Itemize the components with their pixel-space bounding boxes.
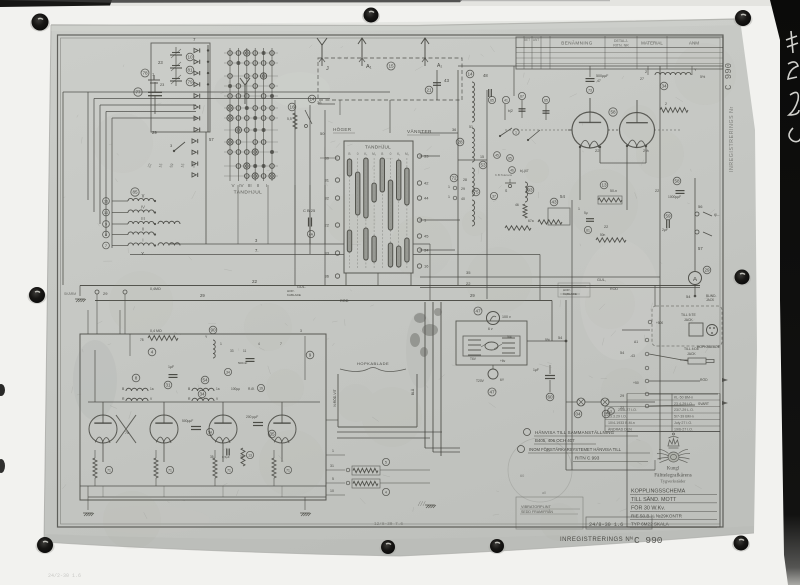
svg-text:35: 35: [240, 455, 244, 459]
svg-text:51: 51: [469, 125, 473, 129]
svg-text:4: 4: [151, 350, 154, 355]
svg-text:37: 37: [492, 195, 496, 199]
svg-text:34: 34: [661, 84, 667, 89]
svg-text:B405, 406 OCH 407: B405, 406 OCH 407: [535, 438, 575, 443]
svg-text:32: 32: [325, 196, 330, 201]
svg-text:i: i: [143, 194, 144, 199]
svg-text:1: 1: [220, 342, 222, 346]
svg-text:a0: a0: [542, 491, 546, 495]
svg-text:23: 23: [160, 83, 164, 87]
svg-text:9: 9: [105, 223, 107, 227]
svg-text:29: 29: [704, 268, 710, 273]
svg-text:KABLADE: KABLADE: [287, 293, 301, 297]
svg-text:33: 33: [230, 349, 234, 353]
svg-text:tβ↔: tβ↔: [714, 213, 720, 217]
svg-text:43: 43: [444, 78, 450, 83]
svg-text:INOM FÖRSTÄRKARSYSTEMET HÄNVI: INOM FÖRSTÄRKARSYSTEMET HÄNVISA TILL: [529, 447, 622, 452]
svg-text:0,5μF: 0,5μF: [222, 455, 230, 459]
svg-text:93: 93: [527, 188, 533, 193]
svg-text:22: 22: [252, 279, 258, 284]
svg-text:5,5: 5,5: [287, 117, 292, 121]
svg-text:65: 65: [544, 99, 548, 103]
svg-text:59: 59: [665, 214, 671, 219]
svg-text:47: 47: [475, 309, 481, 314]
svg-text:500mF: 500mF: [238, 361, 248, 365]
svg-text:56: 56: [698, 204, 703, 209]
svg-text:B: B: [381, 152, 383, 156]
svg-text:11: 11: [243, 349, 247, 353]
svg-text:II: II: [142, 227, 144, 232]
svg-text:+6v: +6v: [500, 359, 506, 363]
svg-text:TYP 6M22 SKALA: TYP 6M22 SKALA: [631, 522, 670, 527]
svg-text:Fälttelegrafkårens: Fälttelegrafkårens: [654, 472, 691, 479]
svg-text:TILL SÄND. MOTT: TILL SÄND. MOTT: [631, 496, 677, 503]
svg-text:b|2: b|2: [508, 109, 513, 113]
svg-text:RITN. NR: RITN. NR: [613, 44, 629, 48]
svg-text:57: 57: [698, 246, 703, 251]
svg-text:23/7-29 L.O.: 23/7-29 L.O.: [674, 408, 694, 412]
svg-text:28: 28: [457, 140, 463, 145]
svg-text:2: 2: [665, 102, 667, 106]
svg-text:200 μμF: 200 μμF: [246, 415, 258, 419]
svg-text:90: 90: [210, 328, 216, 333]
svg-text:15.3.29 I.O.: 15.3.29 I.O.: [608, 415, 627, 419]
svg-text:1: 1: [515, 131, 517, 135]
svg-text:╱╱╱: ╱╱╱: [417, 501, 426, 506]
svg-text:16: 16: [289, 105, 295, 110]
svg-text:I: I: [266, 183, 267, 188]
svg-text:35: 35: [210, 455, 214, 459]
svg-text:85: 85: [132, 190, 138, 195]
svg-text:46: 46: [515, 203, 519, 207]
svg-text:6 v: 6 v: [488, 327, 493, 331]
svg-text:14: 14: [467, 72, 473, 77]
svg-text:Tygverkstäder: Tygverkstäder: [660, 479, 686, 484]
svg-text:46: 46: [510, 169, 514, 173]
svg-text:12/8-30 7.6: 12/8-30 7.6: [374, 522, 403, 527]
svg-text:K₁: K₁: [397, 152, 400, 156]
svg-text:65: 65: [490, 99, 494, 103]
svg-text:23: 23: [158, 60, 163, 65]
svg-text:MATERIAL: MATERIAL: [641, 41, 663, 46]
svg-text:29: 29: [152, 130, 157, 135]
svg-text:1a: 1a: [216, 387, 220, 391]
svg-text:KL-50 BM-n: KL-50 BM-n: [674, 396, 693, 400]
svg-text:54: 54: [686, 294, 691, 299]
svg-text:7α: 7α: [125, 431, 129, 435]
svg-text:73: 73: [588, 89, 592, 93]
svg-text:72: 72: [451, 176, 457, 181]
svg-text:A₂: A₂: [437, 63, 442, 69]
svg-text:5/4: 5/4: [507, 335, 512, 339]
svg-text:A₁: A₁: [366, 64, 372, 70]
svg-text:43: 43: [551, 200, 557, 205]
svg-text:8: 8: [105, 233, 107, 237]
svg-text:FÖR 30 W.Kv.: FÖR 30 W.Kv.: [631, 505, 665, 512]
svg-text:TANDHJUL: TANDHJUL: [365, 145, 391, 150]
svg-text:53: 53: [480, 163, 486, 168]
svg-text:2: 2: [645, 70, 647, 74]
svg-text:5: 5: [332, 477, 334, 481]
svg-text:1a: 1a: [150, 387, 154, 391]
svg-text:INREGISTRERINGS Nᴺ: INREGISTRERINGS Nᴺ: [560, 536, 633, 543]
svg-text:IV: IV: [141, 205, 145, 210]
svg-text:SVART: SVART: [698, 402, 709, 406]
svg-text:54: 54: [558, 336, 562, 340]
svg-text:T6V: T6V: [470, 357, 477, 361]
svg-text:BET: BET: [524, 38, 530, 42]
svg-text:C 990: C 990: [634, 535, 663, 546]
svg-text:60: 60: [547, 395, 553, 400]
svg-text:60: 60: [520, 474, 524, 478]
svg-text:1: 1: [448, 185, 450, 189]
svg-text:0: 0: [390, 152, 392, 156]
svg-text:15: 15: [388, 64, 394, 69]
svg-text:JACK: JACK: [687, 352, 696, 356]
svg-text:19/6-27 I.O.: 19/6-27 I.O.: [674, 428, 693, 432]
svg-text:58: 58: [610, 110, 616, 115]
svg-text:-43: -43: [630, 354, 635, 358]
svg-text:8: 8: [135, 376, 138, 381]
svg-text:A1: A1: [634, 340, 638, 344]
svg-text:31: 31: [330, 464, 334, 468]
svg-text:VÄNSTER: VÄNSTER: [407, 128, 432, 135]
svg-text:HÖGER: HÖGER: [333, 126, 352, 132]
svg-text:GUL.: GUL.: [297, 285, 306, 289]
svg-text:44: 44: [424, 196, 429, 201]
svg-text:54: 54: [560, 194, 565, 199]
svg-text:29: 29: [103, 291, 108, 296]
svg-text:71: 71: [107, 469, 111, 473]
svg-text:67a: 67a: [528, 219, 534, 223]
svg-text:7: 7: [105, 244, 107, 248]
svg-text:67: 67: [520, 95, 524, 99]
svg-text:BENÄMNING: BENÄMNING: [561, 40, 592, 46]
svg-text:04: 04: [575, 412, 581, 417]
svg-text:1000μμF: 1000μμF: [668, 195, 681, 199]
svg-text:III: III: [141, 216, 145, 221]
svg-text:III: III: [248, 183, 252, 188]
svg-text:TILL 5:TE: TILL 5:TE: [681, 313, 696, 317]
svg-text:71: 71: [168, 469, 172, 473]
svg-text:I: I: [142, 238, 143, 243]
svg-text:SKÄRM: SKÄRM: [64, 292, 76, 296]
svg-text:K₁: K₁: [364, 152, 367, 156]
svg-text:24/2-30 1.6: 24/2-30 1.6: [48, 573, 81, 579]
svg-text:22: 22: [595, 148, 600, 153]
svg-text:23.4-29 I.O.: 23.4-29 I.O.: [674, 402, 693, 406]
svg-text:500μμF: 500μμF: [182, 419, 193, 423]
svg-text:75: 75: [473, 190, 479, 195]
svg-text:42: 42: [424, 181, 429, 186]
svg-text:RÖD: RÖD: [340, 299, 349, 303]
svg-text:Y.: Y.: [141, 251, 145, 256]
svg-text:500μμF: 500μμF: [596, 74, 609, 78]
svg-text:RÖD: RÖD: [700, 378, 708, 382]
svg-text:58: 58: [674, 179, 680, 184]
svg-text:14: 14: [309, 97, 315, 102]
svg-text:27: 27: [640, 77, 644, 81]
svg-text:36: 36: [452, 128, 456, 132]
svg-text:4A: 4A: [309, 233, 314, 237]
svg-text:HOPKABLADE: HOPKABLADE: [357, 361, 389, 366]
svg-text:54: 54: [202, 378, 208, 383]
svg-text:40: 40: [461, 197, 465, 201]
svg-text:29: 29: [461, 187, 465, 191]
svg-text:ÄNDRAD DEN: ÄNDRAD DEN: [608, 428, 632, 432]
svg-text:50: 50: [320, 131, 325, 136]
svg-text:B: B: [348, 152, 350, 156]
svg-text:81: 81: [187, 68, 193, 73]
svg-text:100 v: 100 v: [502, 315, 511, 319]
svg-text:5: 5: [385, 461, 387, 465]
svg-text:II: II: [257, 183, 260, 188]
svg-text:T20V: T20V: [476, 379, 485, 383]
svg-text:79: 79: [187, 80, 193, 85]
svg-text:13: 13: [248, 454, 252, 458]
svg-text:24/8-30 1.6: 24/8-30 1.6: [589, 522, 623, 528]
svg-text:5/7-39 BM-n: 5/7-39 BM-n: [674, 415, 694, 419]
svg-text:41: 41: [504, 99, 508, 103]
svg-text:100μμ: 100μμ: [231, 387, 240, 391]
svg-text:10: 10: [187, 55, 193, 60]
svg-text:7.: 7.: [255, 248, 259, 253]
svg-text:34: 34: [226, 371, 230, 375]
svg-text:JACK: JACK: [706, 298, 715, 302]
svg-text:0: 0: [357, 152, 359, 156]
svg-text:RIE 50.B ¾ №29KONTR: RIE 50.B ¾ №29KONTR: [631, 514, 683, 519]
svg-text:29: 29: [200, 293, 205, 298]
svg-text:HOPKABLADE: HOPKABLADE: [697, 345, 721, 349]
svg-text:48: 48: [483, 73, 488, 78]
svg-text:31: 31: [325, 178, 330, 183]
svg-text:57: 57: [209, 137, 214, 142]
svg-text:1μF: 1μF: [533, 368, 539, 372]
svg-text:65: 65: [508, 157, 512, 161]
svg-text:21: 21: [426, 88, 432, 93]
svg-text:J: J: [326, 66, 329, 72]
svg-text:10/4-1933 B.M-n: 10/4-1933 B.M-n: [608, 421, 635, 425]
svg-text:28: 28: [463, 178, 467, 182]
svg-text:16: 16: [104, 200, 108, 204]
svg-text:DETALJ-: DETALJ-: [614, 39, 629, 43]
svg-text:July 27 I.O.: July 27 I.O.: [674, 421, 692, 425]
svg-text:R.Ø.: R.Ø.: [248, 387, 255, 391]
svg-text:,47: ,47: [596, 79, 601, 83]
svg-text:34: 34: [199, 392, 205, 397]
svg-text:N:RÖD-VIT: N:RÖD-VIT: [333, 389, 337, 406]
svg-text:45: 45: [495, 154, 499, 158]
svg-text:K.B.Tolerans: K.B.Tolerans: [495, 173, 513, 177]
svg-text:1μF: 1μF: [168, 365, 174, 369]
svg-text:9: 9: [309, 353, 312, 358]
svg-text:INREGISTRERINGS Nr: INREGISTRERINGS Nr: [729, 106, 735, 172]
svg-text:15: 15: [480, 155, 484, 159]
svg-text:ANT: ANT: [533, 38, 539, 42]
svg-text:78: 78: [140, 338, 144, 342]
svg-text:54: 54: [620, 351, 624, 355]
svg-text:C B 25: C B 25: [303, 208, 316, 213]
svg-text:2μF: 2μF: [662, 228, 668, 232]
svg-text:KOPPLINGSSCHEMA: KOPPLINGSSCHEMA: [631, 489, 686, 495]
svg-text:71: 71: [227, 469, 231, 473]
svg-text:78: 78: [142, 71, 148, 76]
svg-text:A: A: [693, 277, 697, 283]
svg-text:HÄNVISA TILL SAMMANSTÄLLNING: HÄNVISA TILL SAMMANSTÄLLNING: [535, 430, 615, 435]
svg-text:19: 19: [259, 387, 263, 391]
svg-text:36: 36: [325, 274, 330, 279]
svg-text:Kungl: Kungl: [667, 467, 680, 472]
svg-text:33: 33: [325, 251, 330, 256]
svg-text:1: 1: [448, 195, 450, 199]
svg-text:10: 10: [104, 211, 108, 215]
svg-text:1: 1: [332, 449, 334, 453]
svg-text:10: 10: [330, 489, 334, 493]
svg-text:3: 3: [300, 329, 302, 333]
svg-text:22: 22: [655, 189, 659, 193]
svg-text:31: 31: [165, 383, 171, 388]
svg-text:b0: b0: [546, 449, 550, 453]
svg-text:47: 47: [489, 390, 495, 395]
svg-text:4: 4: [385, 491, 387, 495]
